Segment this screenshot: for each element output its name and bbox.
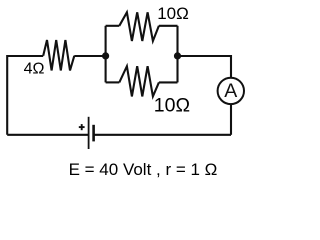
wire ammeter bottom to bottom-right corner <box>230 104 232 135</box>
battery E negative plate (short thick) <box>92 125 95 142</box>
wire left side and top-left segment <box>7 56 43 135</box>
svg-text:4Ω: 4Ω <box>24 60 45 77</box>
wire top branch right lead <box>159 25 178 27</box>
node C junction dot <box>174 52 181 59</box>
svg-text:E = 40 Volt , r = 1 Ω: E = 40 Volt , r = 1 Ω <box>69 160 218 179</box>
wire from R1 to node B <box>74 55 105 57</box>
node B junction dot <box>102 52 109 59</box>
svg-text:10Ω: 10Ω <box>157 4 189 23</box>
wire bottom right segment <box>94 134 231 136</box>
wire node C to ammeter top <box>178 56 232 78</box>
svg-text:10Ω: 10Ω <box>154 94 190 116</box>
wire bottom branch right lead <box>159 81 178 83</box>
wire top branch left lead <box>106 25 120 27</box>
wire left vertical of parallel branch <box>105 26 107 83</box>
resistor R3 10Ω (bottom) zigzag <box>119 66 159 96</box>
wire bottom left segment <box>7 134 88 136</box>
wire bottom branch left lead <box>106 81 120 83</box>
ammeter A circle <box>218 78 244 104</box>
resistor R2 10Ω (top) zigzag <box>119 12 159 41</box>
resistor R1 4Ω zigzag <box>43 40 74 71</box>
svg-text:A: A <box>224 80 237 102</box>
wire right vertical of parallel branch <box>176 26 178 83</box>
battery E positive plate (long) <box>88 117 90 149</box>
battery plus sign <box>79 124 85 130</box>
